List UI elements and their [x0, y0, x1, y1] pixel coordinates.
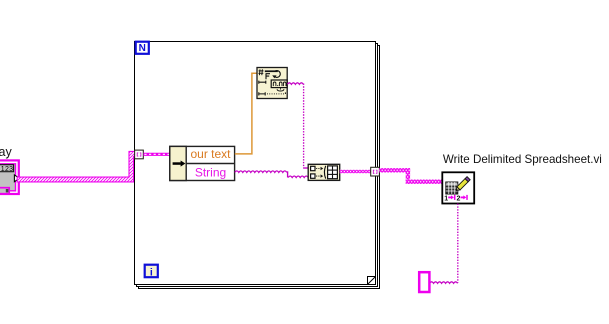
svg-text:2: 2	[457, 196, 461, 203]
svg-text:N: N	[139, 43, 146, 54]
svg-text:ay: ay	[0, 145, 12, 159]
svg-text:1: 1	[444, 196, 448, 203]
svg-text:String: String	[195, 166, 226, 180]
svg-text:i: i	[150, 266, 153, 278]
svg-text:our text: our text	[190, 147, 231, 161]
svg-text:123: 123	[1, 166, 14, 173]
svg-text:Write Delimited Spreadsheet.vi: Write Delimited Spreadsheet.vi	[443, 153, 602, 166]
